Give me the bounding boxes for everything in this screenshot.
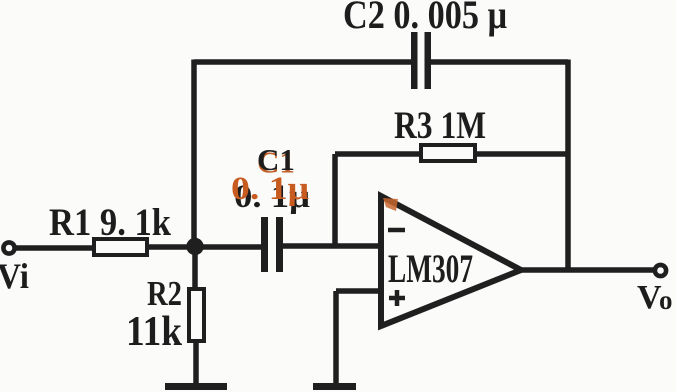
- terminal Vo: [637, 265, 673, 316]
- svg-text:R3 1M: R3 1M: [394, 104, 486, 147]
- op-amp U1 LM307: [381, 196, 521, 326]
- svg-text:11k: 11k: [126, 309, 183, 355]
- wire R3 right lead: [474, 151, 568, 157]
- svg-text:C2 0. 005 μ: C2 0. 005 μ: [343, 0, 507, 37]
- resistor R3: [335, 104, 568, 161]
- wire output, op-amp apex to Vo terminal: [521, 267, 654, 273]
- wire R3 branch vertical down to inverting input line: [332, 154, 338, 246]
- wire R3 left lead: [335, 151, 422, 157]
- svg-text:0. 1μ: 0. 1μ: [231, 171, 309, 207]
- wire left vertical, node A up to top feedback wire: [191, 60, 197, 247]
- U1 inverting input minus sign: [388, 228, 405, 233]
- ground under R2: [165, 383, 227, 390]
- C2 left plate: [411, 32, 418, 89]
- wire right vertical, top feedback wire down to output node: [565, 60, 571, 271]
- terminal Vi: [0, 242, 29, 296]
- wire top feedback, C2 right plate to right vertical: [430, 59, 568, 65]
- wire Vi terminal to R1: [15, 245, 93, 251]
- wire R1 to C1 through node A: [147, 244, 262, 250]
- resistor R1: [49, 201, 171, 255]
- Vo terminal circle: [655, 265, 666, 276]
- svg-text:R2: R2: [147, 274, 182, 313]
- C1 right plate: [276, 217, 283, 272]
- wire top feedback, left vertical to C2 left plate: [194, 59, 412, 65]
- U1 non-inverting input plus sign: [389, 290, 405, 306]
- wire R2 bottom lead to ground: [193, 341, 199, 384]
- svg-text:Vi: Vi: [0, 256, 29, 296]
- C1 left plate: [261, 217, 268, 272]
- wire R2 top lead from node A: [192, 246, 198, 290]
- R2 body: [189, 289, 204, 341]
- Vi terminal circle: [3, 242, 14, 253]
- wire C1 to op-amp inverting input: [283, 243, 381, 249]
- wire non-inverting input to ground: [336, 291, 381, 384]
- svg-text:LM307: LM307: [388, 246, 473, 291]
- R3 body: [421, 145, 475, 161]
- capacitor C1: [231, 142, 310, 272]
- U1 triangle body: [381, 196, 521, 326]
- svg-text:R1 9. 1k: R1 9. 1k: [49, 201, 171, 244]
- node A junction dot: [186, 238, 203, 255]
- R1 body: [94, 239, 147, 255]
- resistor R2: [126, 246, 204, 384]
- ground at non-inverting input: [313, 383, 356, 390]
- orange smudge artifact at op-amp corner: [383, 198, 398, 211]
- svg-text:o: o: [659, 285, 673, 315]
- C2 right plate: [425, 32, 432, 89]
- capacitor C2: [343, 0, 507, 89]
